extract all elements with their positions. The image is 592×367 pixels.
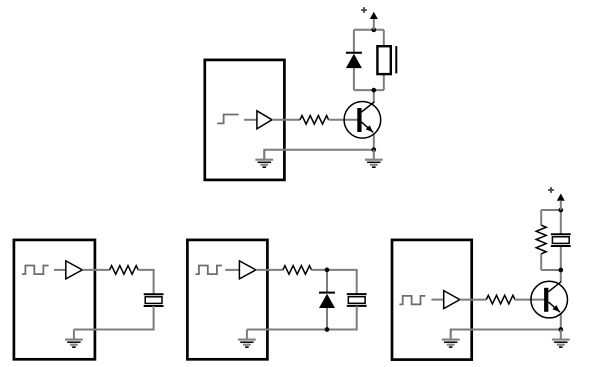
wire: buffer A4 output to resistor R4 xyxy=(460,299,487,301)
wire: collector of Q1 up to node xyxy=(373,90,375,102)
op-amp buffer A2 xyxy=(66,261,83,279)
wire: buffer A3 output to resistor R3 xyxy=(256,269,283,271)
resistor R1 xyxy=(300,116,329,125)
wire: piezo X3 to bottom rail xyxy=(560,246,562,270)
wire: waveform to buffer A3 input xyxy=(225,269,239,271)
wire: waveform to buffer A2 input xyxy=(54,269,66,271)
wire: bottom rail of R5/X3 parallel pair xyxy=(541,269,561,271)
node: top rail junction xyxy=(371,27,376,32)
wire: piezo X1 to ground rail of U2 xyxy=(74,306,154,330)
transistor Q2 (NPN) xyxy=(531,281,568,318)
square wave symbol inside U4 xyxy=(399,296,425,305)
power supply + arrow (top) xyxy=(361,7,378,30)
diode D2 xyxy=(319,293,335,308)
box U3 (driver block) xyxy=(187,240,267,359)
wire: right branch to buzzer LS1 xyxy=(383,30,385,46)
wire: resistor R5 to bottom rail xyxy=(540,254,542,270)
wire: D1 anode to bottom rail xyxy=(353,68,355,90)
wire: resistor R2 to piezo X1 xyxy=(138,270,153,294)
wire: bottom rail of D1/LS1 parallel pair xyxy=(354,89,384,91)
wire: waveform to buffer A4 input xyxy=(431,299,443,301)
node: D2/X2 bottom junction xyxy=(325,327,330,332)
wire: top rail of D1/LS1 parallel pair xyxy=(354,29,384,31)
ground (inside U2) xyxy=(65,330,83,348)
box U1 (driver block) xyxy=(205,60,285,180)
op-amp buffer A1 xyxy=(257,111,272,129)
resistor R3 xyxy=(283,266,312,275)
box U2 (driver block) xyxy=(14,240,95,359)
ground (inside U4) xyxy=(442,330,460,348)
resistor R2 xyxy=(110,266,139,275)
op-amp buffer A3 xyxy=(239,261,256,279)
wire: top rail of R5/X3 parallel pair xyxy=(541,209,561,211)
step waveform symbol inside U1 xyxy=(217,115,238,124)
node: emitter/ground junction xyxy=(371,147,376,152)
square wave symbol inside U3 xyxy=(196,266,223,275)
resistor R4 xyxy=(486,295,515,304)
wire: resistor R4 to base of Q2 xyxy=(515,299,544,301)
wire: ground rail from U1 to emitter node xyxy=(264,150,374,160)
square wave symbol inside U2 xyxy=(22,266,49,275)
wire: left branch through D1 xyxy=(353,30,355,53)
wire: resistor R1 to base of Q1 xyxy=(329,119,358,121)
op-amp buffer A4 xyxy=(444,291,460,309)
ground (Q2 emitter) xyxy=(552,330,570,348)
node: bottom rail junction xyxy=(371,88,376,93)
wire: emitter of Q2 down to ground rail xyxy=(560,313,562,330)
ground (inside U1) xyxy=(255,150,273,168)
transistor Q1 (NPN) xyxy=(344,102,381,139)
diode D1 xyxy=(346,53,362,68)
wire: collector of Q2 up to parallel pair xyxy=(560,270,562,282)
wire: left branch to resistor R5 xyxy=(540,210,542,225)
wire: right branch to piezo X3 xyxy=(560,210,562,234)
wire: waveform to buffer A1 input xyxy=(244,119,257,121)
wire: resistor R3 to D2 node and piezo X2 branch xyxy=(312,270,357,294)
wire: D2 anode to bottom rail xyxy=(326,307,328,329)
ground (inside U3) xyxy=(238,330,256,348)
wire: D2 branch down from node xyxy=(326,270,328,293)
power supply + arrow (bottom right) xyxy=(548,187,565,210)
piezo sounder X1 xyxy=(144,294,164,306)
wire: buffer A1 output to resistor R1 xyxy=(272,119,300,121)
wire: piezo X2 down and ground rail to U3 xyxy=(247,306,357,330)
piezo sounder X3 xyxy=(551,234,571,246)
ground (Q1 emitter) xyxy=(365,150,383,168)
wire: buzzer LS1 to bottom rail xyxy=(383,74,385,90)
node: supply rail junction xyxy=(558,208,563,213)
resistor R5 xyxy=(536,225,546,254)
node: emitter/ground junction (Q2) xyxy=(558,327,563,332)
piezo sounder X2 xyxy=(347,294,367,306)
buzzer LS1 xyxy=(377,46,396,74)
node: R3/D2/X2 top junction xyxy=(325,268,330,273)
node: collector rail junction xyxy=(558,268,563,273)
wire: buffer A2 output to resistor R2 xyxy=(82,269,109,271)
wire: emitter of Q1 down to ground rail xyxy=(373,133,375,150)
box U4 (driver block) xyxy=(392,240,472,360)
wire: ground rail from U4 to emitter node xyxy=(451,330,561,340)
